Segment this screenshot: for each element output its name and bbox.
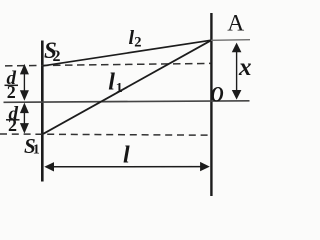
ray l1 (from S1 to A) <box>43 40 211 134</box>
screen <box>210 13 212 196</box>
tick line at A level <box>211 39 250 42</box>
svg-text:2: 2 <box>53 48 61 65</box>
svg-text:1: 1 <box>116 81 123 96</box>
ray l2 (from S2 to A) <box>43 40 211 66</box>
axis line through O <box>4 101 250 103</box>
arrow d/2 upper (S2 line to axis) <box>20 64 29 101</box>
dashed line at S2 level <box>5 63 211 66</box>
label d/2 upper fraction <box>5 68 19 102</box>
svg-text:2: 2 <box>134 35 141 51</box>
svg-text:A: A <box>227 10 244 36</box>
arrow d/2 lower (axis to S1 line) <box>20 103 29 134</box>
label d/2 lower fraction <box>6 104 20 136</box>
arrow l (double-headed, barrier to screen) <box>44 162 210 172</box>
barrier (double-slit plate) <box>41 41 44 182</box>
svg-text:2: 2 <box>8 115 17 135</box>
svg-text:l: l <box>123 143 130 169</box>
svg-text:x: x <box>238 54 252 81</box>
arrow x (double-headed, A to O) <box>232 43 242 100</box>
svg-text:2: 2 <box>7 82 16 102</box>
svg-text:O: O <box>211 83 224 107</box>
svg-text:1: 1 <box>33 143 40 158</box>
dashed line at S1 level <box>0 134 211 135</box>
svg-text:l: l <box>108 70 115 96</box>
